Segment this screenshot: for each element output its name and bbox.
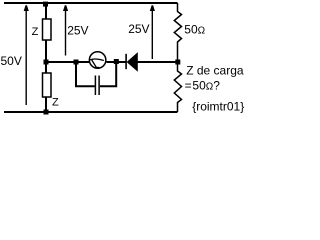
arrow 25V annotation right — [150, 5, 155, 59]
svg-text:Z: Z — [52, 97, 59, 109]
svg-text:25V: 25V — [128, 22, 149, 36]
svg-text:25V: 25V — [67, 23, 88, 37]
wire Z2 bottom lead — [45, 97, 47, 112]
meter M1 circle — [89, 52, 106, 69]
wire middle left segment — [46, 61, 89, 63]
svg-text:Z: Z — [32, 26, 39, 38]
junction node J5 right rail — [175, 60, 180, 65]
capacitor C1 right plate — [98, 76, 100, 96]
svg-text:50V: 50V — [1, 54, 22, 68]
wire capacitor left leg — [76, 62, 95, 86]
arrow 50V annotation — [24, 5, 29, 105]
junction node J1 top — [43, 2, 48, 7]
junction node J4 meter right — [114, 59, 119, 64]
junction node J3 meter left — [74, 60, 79, 65]
wire middle meter-to-diode segment — [106, 61, 125, 63]
meter M1 needle — [92, 60, 97, 67]
diode D1 cathode bar — [125, 54, 127, 69]
svg-text:{roimtr01}: {roimtr01} — [192, 99, 244, 113]
wire top rail — [4, 2, 178, 4]
wire diode-to-right segment — [137, 61, 177, 63]
wire Z1 top lead — [45, 3, 47, 19]
svg-text:50Ω: 50Ω — [184, 23, 205, 37]
impedance Z1 (box) — [43, 19, 52, 40]
arrow 25V annotation left — [63, 5, 68, 55]
meter M1 scale arc — [90, 59, 104, 61]
wire capacitor right leg — [100, 62, 116, 86]
junction node J2 mid-left — [44, 60, 49, 65]
meter M1 pivot tick — [95, 66, 99, 68]
resistor R2 load zigzag — [174, 62, 181, 112]
junction node J6 bottom — [44, 110, 49, 115]
impedance Z2 (box) — [43, 73, 52, 97]
wire Z1 bottom lead — [45, 40, 47, 73]
diode D1 triangle — [127, 53, 137, 70]
capacitor C1 left plate — [94, 76, 96, 96]
svg-text:=50Ω?: =50Ω? — [185, 79, 221, 93]
wire bottom rail — [4, 111, 178, 113]
resistor R1 50ohm zigzag — [174, 3, 181, 62]
svg-text:Z de carga: Z de carga — [186, 63, 244, 77]
